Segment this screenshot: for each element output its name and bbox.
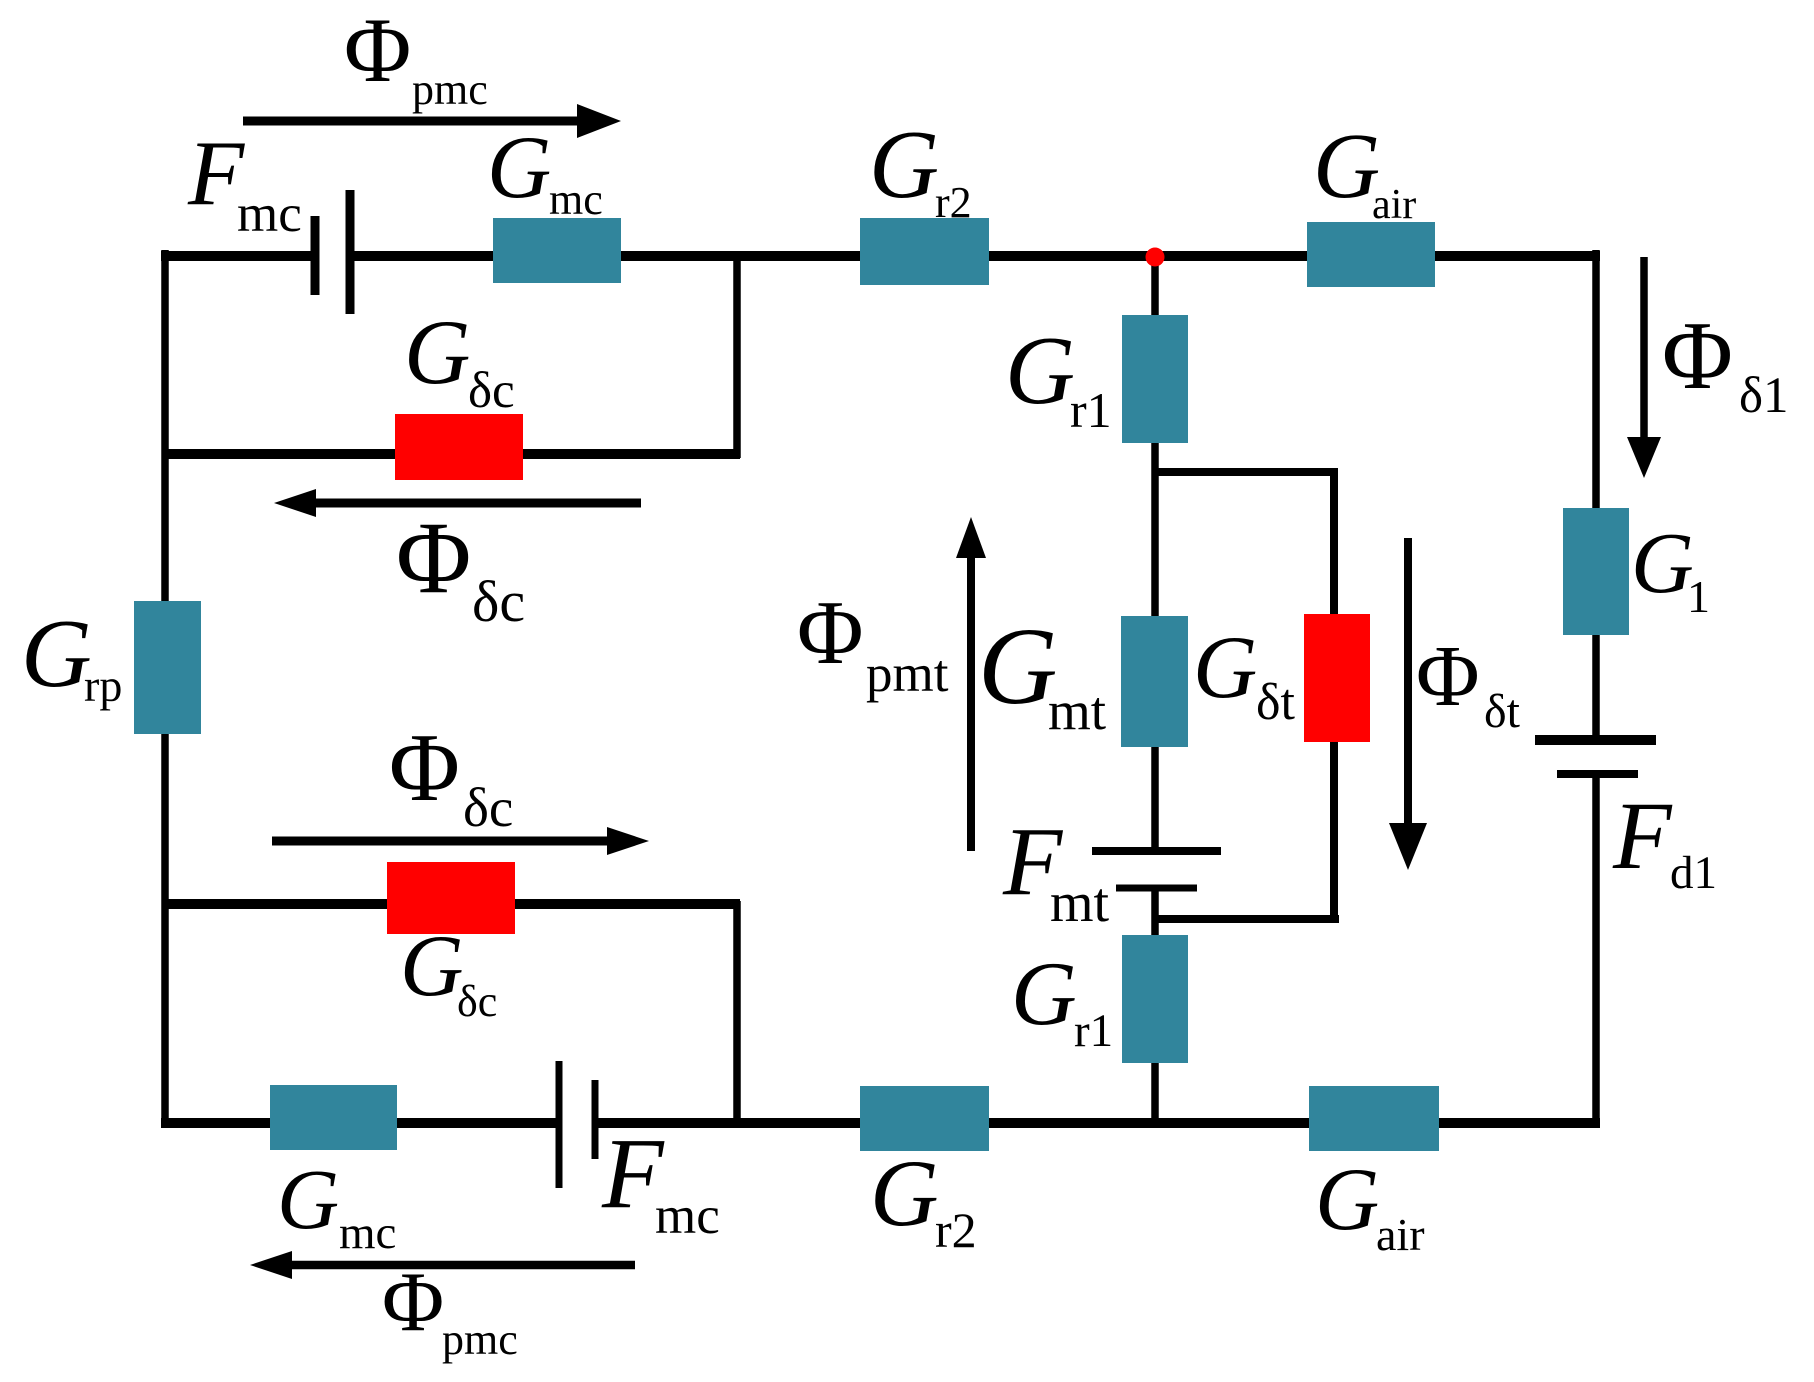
node junction dot [1146, 248, 1165, 267]
svg-text:rp: rp [84, 660, 122, 711]
label G_r2 top [869, 111, 972, 227]
arrow flux dc upper [274, 489, 641, 517]
svg-text:mc: mc [549, 175, 603, 224]
resistor G_dt red [1304, 614, 1370, 742]
arrow flux pmc top [243, 104, 621, 138]
svg-text:δt: δt [1484, 685, 1521, 738]
resistor G_air top [1307, 222, 1435, 287]
label flux_dc lower [389, 714, 513, 838]
wire left rail [161, 250, 169, 1126]
svg-text:d1: d1 [1670, 847, 1717, 899]
resistor G_r2 top [860, 218, 989, 285]
resistor G_r2 bottom [860, 1086, 989, 1151]
svg-text:G: G [404, 301, 470, 403]
wire middle branch upper segment [1151, 258, 1159, 851]
svg-text:δc: δc [457, 977, 497, 1026]
battery F_mc top long plate [346, 190, 355, 314]
wire lower inner loop vertical [733, 901, 741, 1126]
label G_r1 lower [1011, 943, 1113, 1057]
wire top rail right segment [348, 251, 1600, 261]
label flux_pmt [797, 582, 949, 703]
svg-text:mt: mt [1050, 872, 1110, 934]
svg-text:pmt: pmt [866, 645, 949, 703]
label G_1 [1631, 514, 1710, 622]
svg-text:δt: δt [1256, 674, 1296, 731]
svg-text:G: G [21, 600, 92, 708]
wire parallel branch vertical [1330, 468, 1338, 923]
label flux_dc upper [396, 501, 525, 634]
svg-text:G: G [400, 918, 464, 1015]
wire upper inner loop horizontal [162, 449, 740, 459]
label G_dt [1193, 619, 1296, 731]
wire bottom rail left segment [161, 1118, 556, 1128]
arrow flux d1 down [1627, 257, 1661, 478]
svg-text:δc: δc [468, 363, 515, 419]
label G_mt [978, 605, 1106, 741]
svg-text:F: F [1612, 782, 1673, 889]
svg-text:G: G [869, 111, 939, 218]
svg-text:Φ: Φ [389, 714, 460, 821]
wire parallel merge horizontal [1152, 915, 1339, 923]
svg-text:G: G [277, 1151, 339, 1247]
svg-text:G: G [978, 605, 1057, 727]
svg-text:air: air [1376, 1209, 1425, 1260]
label G_air top [1313, 115, 1416, 228]
label F_mt [1002, 808, 1110, 934]
wire right rail lower segment [1592, 774, 1600, 1126]
resistor G_mc top [493, 218, 621, 283]
svg-text:Φ: Φ [797, 582, 864, 683]
label flux_pmc top [344, 0, 488, 114]
wire bottom rail right segment [598, 1118, 1600, 1128]
resistor G_1 [1563, 508, 1629, 635]
resistor G_mc bottom [270, 1085, 397, 1150]
wire parallel split horizontal [1152, 468, 1338, 476]
arrow flux dc lower [272, 827, 649, 855]
wire lower inner loop horizontal [162, 899, 740, 909]
battery F_mc bottom short plate [592, 1080, 599, 1159]
svg-text:Φ: Φ [396, 501, 471, 615]
label G_rp [21, 600, 122, 711]
svg-text:G: G [1313, 115, 1380, 218]
label G_dc lower [400, 918, 497, 1026]
label G_dc upper [404, 301, 515, 419]
svg-text:air: air [1372, 182, 1416, 228]
label F_d1 [1612, 782, 1717, 899]
arrow flux dt down [1389, 538, 1427, 870]
label G_r2 bottom [870, 1140, 977, 1258]
wire top rail left segment [161, 251, 312, 261]
svg-text:G: G [1005, 317, 1075, 424]
svg-text:G: G [1193, 619, 1257, 717]
svg-text:Φ: Φ [382, 1255, 444, 1349]
svg-text:Φ: Φ [1416, 627, 1480, 724]
battery F_d1 short plate [1557, 770, 1638, 778]
battery F_mt short plate [1116, 885, 1197, 892]
svg-text:G: G [1011, 943, 1077, 1044]
wire right rail upper segment [1592, 250, 1600, 740]
svg-text:mt: mt [1048, 680, 1106, 741]
svg-text:Φ: Φ [1662, 302, 1733, 409]
label flux_dt [1416, 627, 1521, 738]
arrow flux pmc bottom [250, 1251, 635, 1279]
svg-text:r1: r1 [1070, 382, 1112, 438]
wire upper inner loop vertical [733, 252, 741, 458]
label G_mc bottom [277, 1151, 396, 1259]
svg-text:G: G [1315, 1151, 1379, 1249]
battery F_mc top short plate [311, 216, 320, 295]
resistor G_r1 upper [1122, 315, 1188, 443]
battery F_d1 long plate [1535, 735, 1656, 745]
resistor G_dc lower red [387, 862, 515, 934]
svg-text:mc: mc [237, 185, 302, 243]
svg-text:mc: mc [655, 1187, 720, 1245]
svg-text:Φ: Φ [344, 0, 411, 101]
wire middle branch lower segment [1151, 888, 1159, 1126]
battery F_mt long plate [1092, 847, 1221, 855]
svg-text:r1: r1 [1074, 1005, 1113, 1057]
svg-text:r2: r2 [935, 1202, 977, 1258]
arrow flux pmt up [956, 517, 986, 851]
label G_air bottom [1315, 1151, 1425, 1260]
resistor G_dc upper red [395, 414, 523, 480]
svg-text:G: G [1631, 514, 1694, 611]
label F_mc bottom [601, 1117, 720, 1245]
svg-text:pmc: pmc [412, 65, 488, 114]
resistor G_mt [1121, 616, 1188, 747]
resistor G_air bottom [1309, 1086, 1439, 1151]
svg-text:pmc: pmc [442, 1315, 518, 1364]
resistor G_rp [134, 601, 201, 734]
label G_r1 upper [1005, 317, 1112, 438]
label G_mc top [487, 119, 603, 224]
svg-text:G: G [487, 119, 551, 217]
label F_mc top [187, 122, 302, 243]
svg-text:1: 1 [1687, 571, 1710, 622]
label flux_pmc bottom [382, 1255, 518, 1364]
svg-text:mc: mc [339, 1207, 396, 1259]
svg-text:r2: r2 [935, 178, 972, 227]
svg-text:δc: δc [472, 569, 525, 634]
resistor G_r1 lower [1122, 935, 1188, 1063]
svg-text:δ1: δ1 [1739, 368, 1789, 424]
battery F_mc bottom long plate [556, 1061, 563, 1188]
svg-text:δc: δc [463, 777, 513, 838]
label flux_d1 [1662, 302, 1789, 424]
svg-text:G: G [870, 1140, 939, 1246]
